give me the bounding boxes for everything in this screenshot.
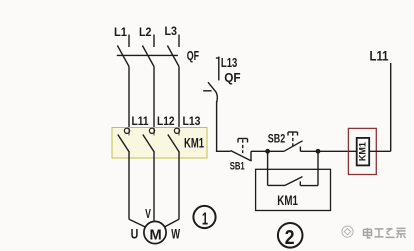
wire L12 phase <box>153 67 155 136</box>
wire SB1 to node A <box>251 150 268 152</box>
breaker QF linkage <box>117 54 178 56</box>
svg-text:L3: L3 <box>165 24 178 38</box>
node L1 <box>114 25 129 47</box>
contactor KM1 aux contact (NO) <box>268 177 318 186</box>
wire to SB1 <box>216 150 231 152</box>
breaker QF control pole blade <box>208 82 217 102</box>
svg-text:L11: L11 <box>132 114 149 128</box>
wire SB2 to node B <box>300 150 318 152</box>
watermark text <box>364 228 406 238</box>
coil KM1 highlight box <box>348 128 376 174</box>
contactor KM1 main contact pole 3 <box>168 128 180 152</box>
wire coil to L11 riser <box>369 150 391 152</box>
wire L11 phase <box>128 67 130 136</box>
wire L11 riser <box>390 63 392 151</box>
watermark logo <box>342 226 353 237</box>
coil KM1 <box>357 138 370 166</box>
contactor KM1 main contacts highlight box <box>112 128 207 159</box>
pushbutton SB1 (NC stop) <box>231 139 252 162</box>
wire L13 phase <box>178 67 180 136</box>
svg-text:L13: L13 <box>183 114 201 128</box>
node L13 control <box>216 55 237 81</box>
wire control descent <box>216 101 218 151</box>
svg-text:SB2: SB2 <box>268 134 285 146</box>
junction node A <box>265 149 270 154</box>
aux branch wire right <box>317 151 319 185</box>
svg-text:U: U <box>131 227 139 242</box>
junction node B <box>316 149 321 154</box>
svg-text:W: W <box>171 227 180 242</box>
svg-text:KM1: KM1 <box>358 142 368 161</box>
breaker QF control cross tick <box>203 90 211 92</box>
wire U to motor <box>129 153 145 227</box>
contactor KM1 main contact pole 1 <box>118 128 130 152</box>
aux branch wire left <box>267 151 269 185</box>
svg-text:QF: QF <box>224 70 240 85</box>
motor M1 <box>144 221 166 243</box>
svg-text:L13: L13 <box>221 55 237 70</box>
svg-text:L2: L2 <box>139 25 152 39</box>
svg-text:QF: QF <box>187 49 200 63</box>
svg-text:V: V <box>145 206 151 221</box>
breaker QF pole 3 blade <box>167 46 179 67</box>
svg-text:L1: L1 <box>114 25 127 39</box>
svg-text:M: M <box>150 226 162 243</box>
circuit marker 1 <box>193 206 215 229</box>
node L3 <box>165 24 180 47</box>
svg-text:SB1: SB1 <box>230 160 245 172</box>
breaker QF pole 1 blade <box>117 46 129 67</box>
breaker QF pole 2 blade <box>142 46 154 67</box>
node L2 <box>139 25 154 47</box>
circuit marker 2 <box>278 223 303 249</box>
svg-text:L12: L12 <box>157 114 175 128</box>
contactor KM1 aux box <box>256 169 331 210</box>
contactor KM1 main contact pole 2 <box>143 128 155 152</box>
svg-text:KM1: KM1 <box>184 136 204 151</box>
wire node B to coil <box>318 150 357 152</box>
wire W to motor <box>165 153 179 227</box>
wire V to motor <box>153 153 155 221</box>
svg-text:KM1: KM1 <box>277 193 298 208</box>
svg-text:1: 1 <box>202 209 208 229</box>
svg-text:2: 2 <box>285 227 295 249</box>
svg-text:L11: L11 <box>370 48 389 63</box>
pushbutton SB2 (NO start) <box>268 132 303 151</box>
